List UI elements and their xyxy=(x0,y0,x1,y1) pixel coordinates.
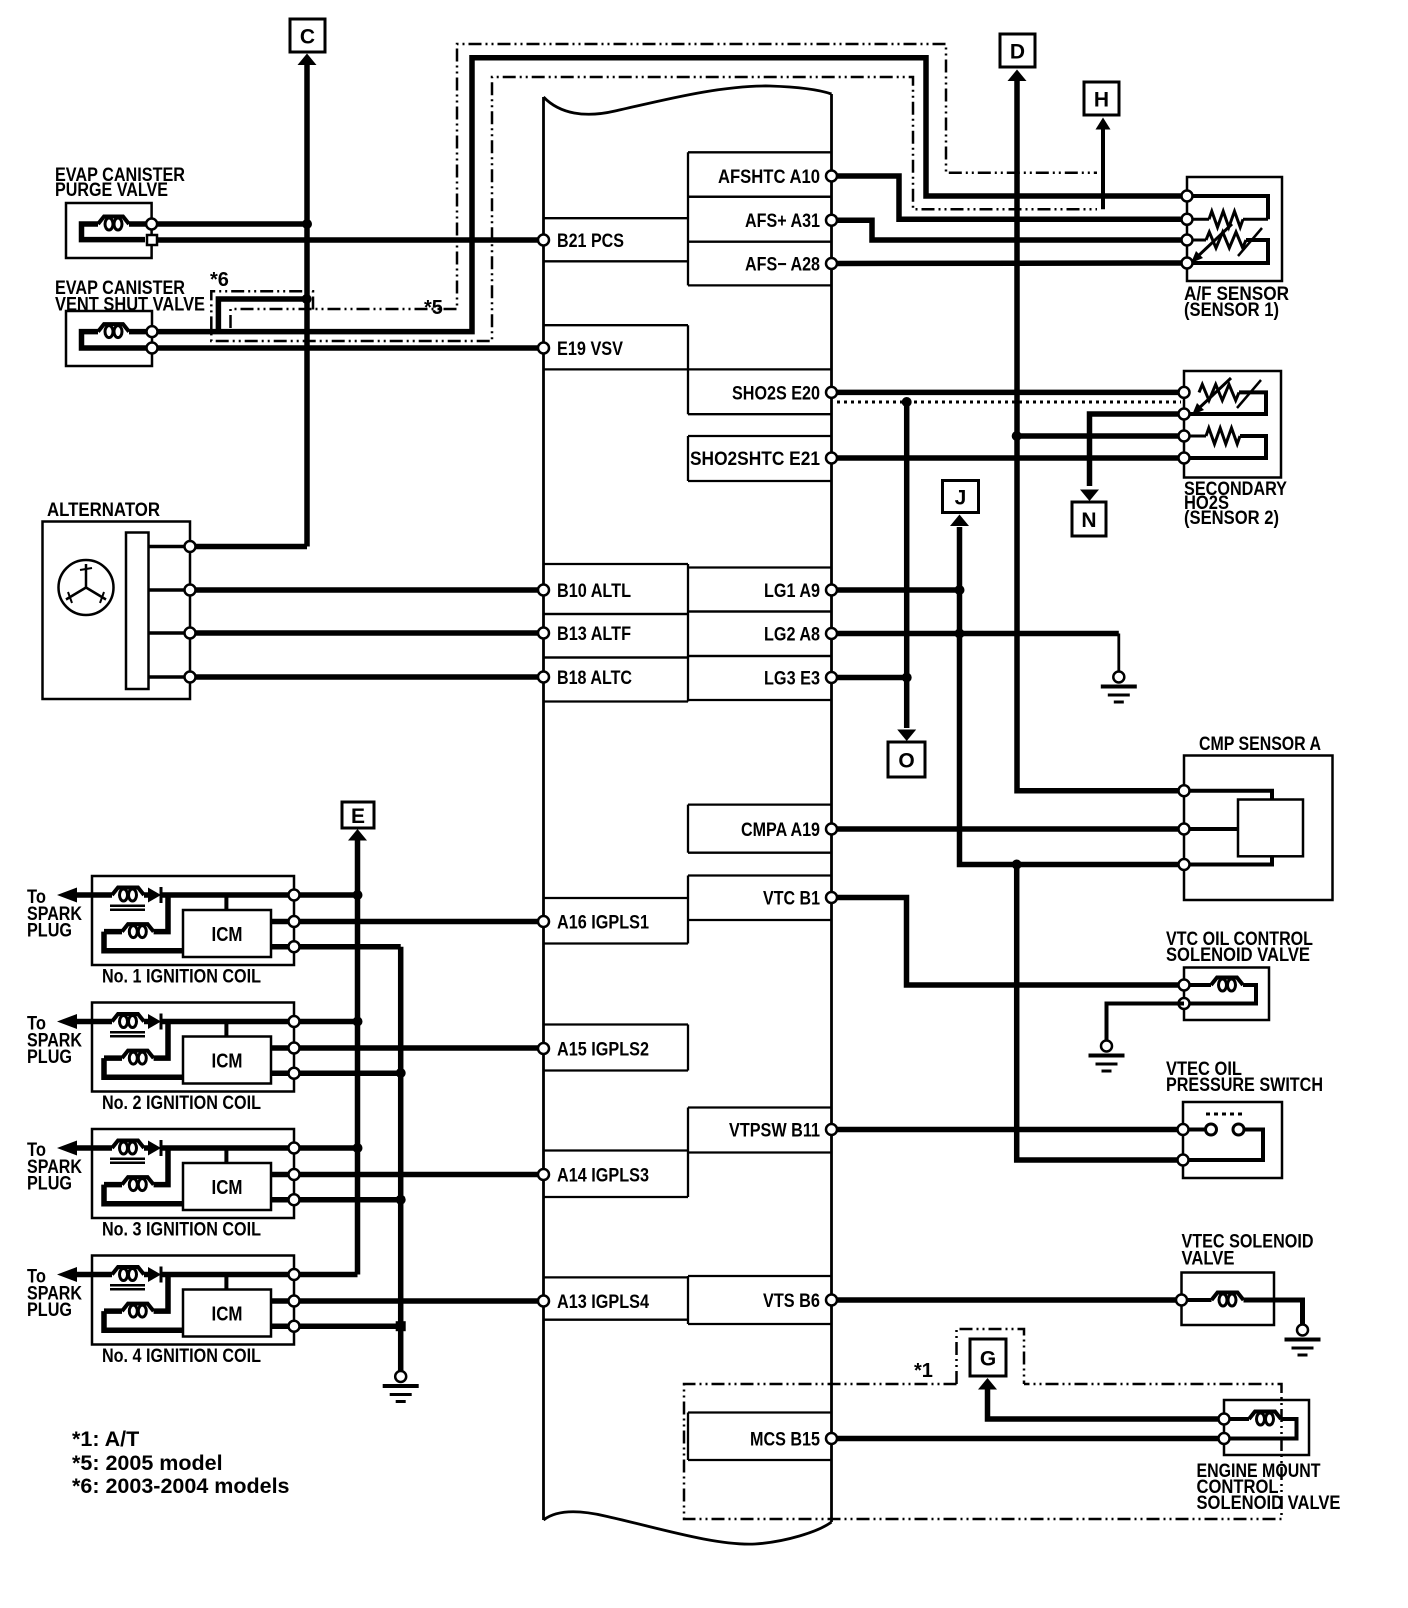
connector H xyxy=(1084,82,1119,115)
svg-text:VENT SHUT VALVE: VENT SHUT VALVE xyxy=(55,295,205,316)
wire: LG2 A8 to body ground xyxy=(837,631,1119,637)
svg-text:*1: *1 xyxy=(914,1360,933,1382)
svg-text:A14 IGPLS3: A14 IGPLS3 xyxy=(557,1166,649,1187)
svg-text:AFSHTC A10: AFSHTC A10 xyxy=(718,167,820,188)
svg-text:CMP SENSOR A: CMP SENSOR A xyxy=(1199,733,1321,755)
ground: LG2 xyxy=(1113,672,1124,683)
svg-text:No. 3 IGNITION COIL: No. 3 IGNITION COIL xyxy=(102,1220,261,1241)
wire: coil 1 IGPLS signal to ECM xyxy=(300,919,539,925)
wire: engine mount solenoid to connector G xyxy=(978,1378,1224,1419)
svg-text:(SENSOR 2): (SENSOR 2) xyxy=(1184,507,1279,529)
svg-text:SOLENOID VALVE: SOLENOID VALVE xyxy=(1166,944,1310,966)
ground: VTEC solenoid valve xyxy=(1297,1325,1308,1336)
junction: HO2S pin3 branch on D riser xyxy=(1012,431,1022,441)
note: asterisk legend xyxy=(72,1427,290,1498)
label: SECONDARY HO2S (SENSOR 2) xyxy=(1184,478,1287,529)
svg-text:O: O xyxy=(898,750,914,773)
svg-text:*6: *6 xyxy=(210,269,229,291)
wire: coil 1 ICM ground to collector xyxy=(300,944,401,950)
wire: coil 1 supply to E riser xyxy=(300,892,358,898)
ECM terminal VTS B6 xyxy=(688,1276,837,1324)
wire: coil 4 IGPLS signal to ECM xyxy=(300,1298,539,1304)
alternator xyxy=(43,499,196,699)
VTEC oil pressure switch xyxy=(1178,1102,1283,1178)
wire: coil 4 ICM ground to collector xyxy=(300,1323,401,1329)
svg-text:A16 IGPLS1: A16 IGPLS1 xyxy=(557,913,649,934)
wire: VTEC solenoid valve to ground xyxy=(1244,1300,1303,1325)
wire: pressure switch return drop from CMP pin3 wire junction xyxy=(1017,865,1179,1161)
wire: SHO2SHTC E21 to secondary HO2S pin 4 xyxy=(837,455,1182,461)
svg-text:LG1 A9: LG1 A9 xyxy=(764,581,820,602)
secondary HO2S (sensor 2) xyxy=(1184,371,1281,478)
ECM terminal A15 IGPLS2 xyxy=(538,1025,688,1071)
A/T option dash-dot enclosure (*1) xyxy=(684,1384,1282,1519)
svg-text:H: H xyxy=(1094,89,1109,112)
svg-text:VTC B1: VTC B1 xyxy=(763,889,820,910)
junction: coil 4 ground xyxy=(396,1321,406,1331)
connector G dash-dot enclosure xyxy=(957,1329,1025,1384)
junction: coil 3 ground xyxy=(396,1195,406,1205)
resistor: secondary HO2S heater xyxy=(1184,428,1266,458)
wire: coil 3 IGPLS signal to ECM xyxy=(300,1172,539,1178)
VTC oil control solenoid valve (coil) xyxy=(1179,968,1270,1021)
wire: AFSHTC A10 to A/F sensor pin 2 xyxy=(837,176,1182,219)
*5 model-variant dash-dot route (to connector H) xyxy=(231,44,1098,328)
wire: ICM ground collector riser xyxy=(398,947,404,1371)
wire: connector H stub xyxy=(1096,118,1111,210)
label: VTEC OIL PRESSURE SWITCH xyxy=(1166,1058,1323,1096)
svg-text:No. 2 IGNITION COIL: No. 2 IGNITION COIL xyxy=(102,1093,261,1114)
ignition coil No.1 xyxy=(27,876,300,988)
wire: connector J riser down to CMP sensor A pin 3 xyxy=(950,515,1182,865)
wire: riser to connector C (from alternator pin 1) xyxy=(196,54,317,547)
svg-text:ICM: ICM xyxy=(212,1051,243,1073)
ground: ignition coils xyxy=(395,1371,406,1382)
A/F sensor (sensor 1) xyxy=(1187,177,1282,281)
junction: coil 1 supply on E riser xyxy=(353,890,363,900)
junction: LG2 on J riser xyxy=(955,629,965,639)
junction: shield wire tap xyxy=(902,397,912,407)
ECM terminal VTPSW B11 xyxy=(688,1108,837,1153)
label: A/F SENSOR (SENSOR 1) xyxy=(1184,283,1289,321)
svg-text:B13 ALTF: B13 ALTF xyxy=(557,624,631,645)
wire: purge valve to ECM B21 PCS xyxy=(157,237,538,243)
svg-text:AFS− A28: AFS− A28 xyxy=(745,255,820,276)
wire: coil 2 IGPLS signal to ECM xyxy=(300,1045,539,1051)
junction: coil 2 ground xyxy=(396,1068,406,1078)
svg-text:VALVE: VALVE xyxy=(1182,1248,1235,1270)
svg-text:ICM: ICM xyxy=(212,1304,243,1326)
junction: LG3 on O riser xyxy=(902,673,912,683)
svg-text:D: D xyxy=(1010,41,1025,64)
wire: AFS+ A31 to A/F sensor pin 3 xyxy=(837,220,1182,240)
svg-text:LG3 E3: LG3 E3 xyxy=(764,669,820,690)
ignition coil No.3 xyxy=(27,1129,300,1241)
connector O xyxy=(888,742,925,777)
label: VTEC SOLENOID VALVE xyxy=(1182,1231,1314,1270)
ECM terminal A14 IGPLS3 xyxy=(538,1151,688,1198)
svg-text:CMPA A19: CMPA A19 xyxy=(741,820,820,841)
wire: AFS- A28 to A/F sensor pin 4 xyxy=(837,260,1182,266)
svg-text:A13 IGPLS4: A13 IGPLS4 xyxy=(557,1292,649,1313)
svg-text:*5: *5 xyxy=(424,297,443,319)
svg-text:A15 IGPLS2: A15 IGPLS2 xyxy=(557,1040,649,1061)
svg-text:E19 VSV: E19 VSV xyxy=(557,339,623,360)
wire: coil 4 supply to E riser xyxy=(300,1272,358,1278)
engine mount control solenoid valve (coil) xyxy=(1219,1400,1310,1455)
ECM terminal LG1 A9 xyxy=(688,568,837,612)
wire: VTC solenoid valve to ground xyxy=(1107,1004,1185,1041)
ECM terminal B21 PCS xyxy=(538,218,688,261)
svg-text:PRESSURE SWITCH: PRESSURE SWITCH xyxy=(1166,1074,1323,1096)
label: ENGINE MOUNT CONTROL SOLENOID VALVE xyxy=(1197,1460,1341,1514)
resistor: A/F sensor heater xyxy=(1209,211,1243,227)
svg-text:B18 ALTC: B18 ALTC xyxy=(557,668,632,689)
svg-text:PLUG: PLUG xyxy=(27,1174,72,1195)
ECM terminal B18 ALTC xyxy=(538,658,688,702)
connector E xyxy=(342,802,374,828)
ECM terminal AFSHTC A10 xyxy=(688,152,837,196)
svg-text:MCS B15: MCS B15 xyxy=(750,1430,820,1451)
ECM terminal LG2 A8 xyxy=(688,612,837,657)
ECM terminal SHO2S E20 xyxy=(688,369,837,414)
ignition coil No.2 xyxy=(27,1003,300,1115)
svg-text:*6: 2003-2004 models: *6: 2003-2004 models xyxy=(72,1474,290,1498)
junction: purge valve wire on C riser xyxy=(302,219,312,229)
wire: secondary HO2S pin 2 to connector N xyxy=(1090,414,1182,486)
wire: coil 2 supply to E riser xyxy=(300,1019,358,1025)
ECM terminal AFS+ A31 xyxy=(688,197,837,242)
connector J xyxy=(943,481,979,513)
svg-text:PLUG: PLUG xyxy=(27,1047,72,1068)
EVAP canister purge valve xyxy=(55,165,185,258)
wire: LG3 E3 to O riser xyxy=(837,675,907,681)
ECM terminal A16 IGPLS1 xyxy=(538,898,688,944)
ECM terminal SHO2SHTC E21 xyxy=(688,436,837,481)
wire: alternator pin 2 to B10 ALTL xyxy=(196,587,539,593)
junction: *6 route on C riser xyxy=(302,294,312,304)
variable sensing element: secondary HO2S xyxy=(1184,378,1266,415)
ECM terminal AFS- A28 xyxy=(688,242,837,286)
ECM terminal CMPA A19 xyxy=(688,805,837,853)
*6 model-variant dash-dot route (to connector H) xyxy=(211,77,1097,341)
wire: coil 3 supply to E riser xyxy=(300,1145,358,1151)
wire: VTC B1 to VTC oil control solenoid valve xyxy=(837,898,1179,986)
ground: VTC solenoid valve xyxy=(1101,1041,1112,1052)
junction: LG1 on J riser xyxy=(955,585,965,595)
wire: ignition coil supply riser to connector E xyxy=(348,829,367,1275)
wire: coil 3 ICM ground to collector xyxy=(300,1197,401,1203)
junction: coil 2 supply on E riser xyxy=(353,1017,363,1027)
svg-text:PLUG: PLUG xyxy=(27,1300,72,1321)
svg-text:AFS+ A31: AFS+ A31 xyxy=(745,211,820,232)
wire: connector D riser down to CMP sensor A pin 1 xyxy=(1008,70,1182,791)
svg-text:E: E xyxy=(351,805,365,828)
ECM terminal E19 VSV xyxy=(538,325,688,369)
ECM connector body (torn-edge box) xyxy=(544,86,832,1544)
connector C xyxy=(290,19,325,52)
svg-text:N: N xyxy=(1081,509,1096,532)
wire: LG1 A9 to J riser xyxy=(837,587,960,593)
junction: pressure-switch drop on CMP pin3 wire xyxy=(1012,860,1022,870)
wire: VTS B6 to VTEC solenoid valve xyxy=(837,1297,1179,1303)
ECM terminal A13 IGPLS4 xyxy=(538,1277,688,1319)
A/F sensor pins 1-4 xyxy=(1182,191,1193,269)
junction: coil 3 supply on E riser xyxy=(353,1143,363,1153)
svg-text:No. 4 IGNITION COIL: No. 4 IGNITION COIL xyxy=(102,1346,261,1367)
svg-text:VTPSW B11: VTPSW B11 xyxy=(729,1121,820,1142)
svg-text:SHO2SHTC E21: SHO2SHTC E21 xyxy=(690,449,820,470)
svg-text:G: G xyxy=(980,1348,996,1371)
ECM terminal MCS B15 xyxy=(688,1413,837,1461)
svg-text:*5: 2005 model: *5: 2005 model xyxy=(72,1451,223,1475)
svg-text:ICM: ICM xyxy=(212,924,243,946)
wire: secondary HO2S pin 3 to connector D riser xyxy=(1017,433,1182,439)
connector N xyxy=(1080,490,1099,502)
connector D xyxy=(1000,34,1035,67)
svg-text:VTS B6: VTS B6 xyxy=(763,1291,820,1312)
secondary HO2S pins 1-4 xyxy=(1179,387,1190,464)
wire: vent shut valve to ECM E19 VSV xyxy=(158,345,539,351)
svg-text:(SENSOR 1): (SENSOR 1) xyxy=(1184,299,1279,321)
svg-text:PLUG: PLUG xyxy=(27,921,72,942)
wire: shield/LG3 riser down to connector O xyxy=(897,402,916,741)
wire: alternator pin 3 to B13 ALTF xyxy=(196,630,539,636)
svg-text:J: J xyxy=(955,487,967,510)
EVAP canister vent shut valve xyxy=(55,278,205,366)
wire: coil 2 ICM ground to collector xyxy=(300,1070,401,1076)
VTEC solenoid valve (coil) xyxy=(1176,1273,1274,1326)
shield wire (dashed) of SHO2S circuit xyxy=(837,401,1181,404)
ECM terminal B10 ALTL xyxy=(538,564,688,614)
svg-text:SOLENOID VALVE: SOLENOID VALVE xyxy=(1197,1492,1341,1514)
ECM internal terminal-row divider lines xyxy=(687,152,689,1460)
connector G xyxy=(970,1339,1006,1376)
ECM terminal B13 ALTF xyxy=(538,614,688,658)
wire: SHO2S E20 to secondary HO2S pin 1 xyxy=(837,390,1179,396)
wire: vent shut valve 2003-2004 route (*6) to connector C riser xyxy=(218,299,306,332)
svg-text:B10 ALTL: B10 ALTL xyxy=(557,581,631,602)
label: VTC OIL CONTROL SOLENOID VALVE xyxy=(1166,928,1313,966)
ECM terminal VTC B1 xyxy=(688,876,837,921)
svg-text:B21 PCS: B21 PCS xyxy=(557,231,624,252)
svg-text:PURGE VALVE: PURGE VALVE xyxy=(55,180,168,201)
wire: vent shut valve 2005 route (*5) over top to A/F sensor pin 1 xyxy=(158,58,1182,332)
wire: alternator pin 4 to B18 ALTC xyxy=(196,674,539,680)
svg-text:C: C xyxy=(300,26,315,49)
svg-text:SHO2S E20: SHO2S E20 xyxy=(732,383,820,404)
svg-text:ICM: ICM xyxy=(212,1177,243,1199)
svg-text:ALTERNATOR: ALTERNATOR xyxy=(47,499,160,521)
svg-text:No. 1 IGNITION COIL: No. 1 IGNITION COIL xyxy=(102,967,261,988)
wire: VTPSW B11 to VTEC oil pressure switch xyxy=(837,1127,1179,1133)
wire: MCS B15 to engine mount control solenoid valve xyxy=(837,1436,1224,1442)
ECM terminal LG3 E3 xyxy=(688,656,837,700)
svg-text:LG2 A8: LG2 A8 xyxy=(764,625,820,646)
ignition coil No.4 xyxy=(27,1256,300,1368)
wire: CMPA A19 to CMP sensor pin 2 xyxy=(837,826,1182,832)
wire: purge valve to junction on connector C riser xyxy=(157,221,307,227)
CMP sensor A xyxy=(1179,756,1333,901)
svg-text:*1: A/T: *1: A/T xyxy=(72,1427,139,1451)
variable sensing element: A/F sensor xyxy=(1187,224,1268,263)
